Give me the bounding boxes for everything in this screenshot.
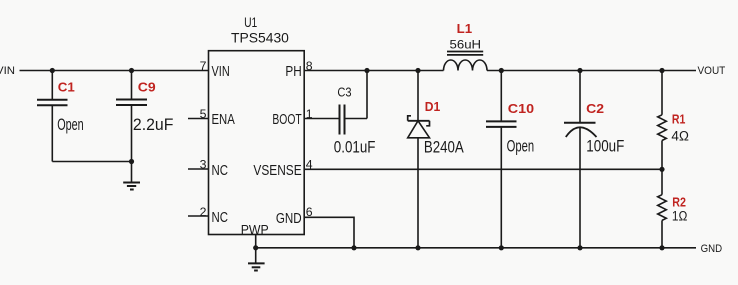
- inductor L1: [444, 21, 488, 71]
- resistor R1: [658, 71, 690, 170]
- junction R2 gnd: [659, 245, 664, 250]
- pin 3 NC stub: [188, 168, 209, 170]
- svg-text:TPS5430: TPS5430: [231, 30, 289, 45]
- IC U1 TPS5430: [188, 15, 313, 238]
- junction C10 branch: [499, 68, 504, 73]
- svg-text:D1: D1: [425, 99, 441, 114]
- svg-text:Open: Open: [57, 115, 83, 134]
- junction pin6 gnd: [351, 245, 356, 250]
- resistor R2: [658, 169, 688, 248]
- wire GND pin 6 route: [304, 217, 354, 248]
- svg-text:PWP: PWP: [241, 223, 269, 238]
- svg-text:100uF: 100uF: [586, 137, 624, 156]
- svg-text:VSENSE: VSENSE: [253, 163, 301, 179]
- svg-text:NC: NC: [212, 210, 229, 226]
- capacitor C2 (polarized): [564, 71, 624, 248]
- junction C2 gnd: [577, 245, 582, 250]
- svg-text:4Ω: 4Ω: [671, 129, 689, 144]
- svg-text:ENA: ENA: [212, 112, 235, 128]
- svg-text:2: 2: [200, 205, 207, 219]
- svg-text:U1: U1: [244, 15, 257, 30]
- svg-text:56uH: 56uH: [450, 39, 482, 51]
- junction R1 branch: [659, 68, 664, 73]
- junction C2 branch: [577, 68, 582, 73]
- wire C1 bottom to C9 bottom: [52, 161, 131, 163]
- junction C9 bottom: [129, 159, 134, 164]
- svg-text:VIN: VIN: [0, 65, 15, 77]
- svg-text:GND: GND: [276, 211, 302, 227]
- diode D1 (schottky): [408, 71, 465, 248]
- svg-text:NC: NC: [212, 163, 229, 179]
- svg-text:C2: C2: [586, 101, 604, 116]
- wire PWP to ground: [255, 235, 257, 248]
- ground below C9: [123, 162, 140, 190]
- pin 2 NC stub: [188, 215, 209, 217]
- capacitor C1: [37, 71, 84, 162]
- wire GND rail: [256, 247, 696, 249]
- svg-text:C10: C10: [508, 101, 534, 116]
- svg-text:R2: R2: [672, 195, 686, 210]
- capacitor C10: [486, 71, 534, 248]
- junction D1 gnd: [415, 245, 420, 250]
- svg-text:7: 7: [200, 59, 207, 73]
- pin 5 ENA stub: [188, 118, 209, 120]
- svg-text:PH: PH: [285, 64, 301, 80]
- wire PH rail left segment: [304, 70, 443, 72]
- svg-text:C3: C3: [337, 86, 351, 100]
- svg-text:R1: R1: [672, 112, 686, 127]
- svg-text:C9: C9: [138, 80, 156, 95]
- junction at C9: [129, 68, 134, 73]
- svg-text:5: 5: [200, 107, 207, 121]
- svg-text:1Ω: 1Ω: [672, 209, 688, 224]
- svg-text:2.2uF: 2.2uF: [133, 115, 174, 134]
- junction at C1: [50, 68, 55, 73]
- ground below PWP: [248, 248, 265, 271]
- junction C3 branch: [364, 68, 369, 73]
- svg-text:0.01uF: 0.01uF: [334, 138, 376, 157]
- junction C10 gnd: [499, 245, 504, 250]
- svg-text:B240A: B240A: [424, 138, 464, 157]
- svg-text:3: 3: [200, 157, 207, 171]
- svg-text:BOOT: BOOT: [272, 112, 301, 128]
- capacitor C9: [116, 71, 173, 162]
- wire VSENSE feedback: [304, 168, 662, 170]
- svg-text:C1: C1: [58, 80, 75, 95]
- junction VSENSE / R1-R2 node: [659, 167, 664, 172]
- wire VIN rail: [20, 70, 209, 72]
- junction PWP: [253, 245, 258, 250]
- wire PH rail right segment: [487, 70, 696, 72]
- svg-text:VIN: VIN: [212, 64, 230, 80]
- junction D1 branch: [415, 68, 420, 73]
- svg-text:L1: L1: [457, 21, 473, 36]
- svg-text:VOUT: VOUT: [698, 65, 726, 77]
- svg-text:GND: GND: [701, 243, 723, 255]
- svg-text:Open: Open: [507, 137, 534, 156]
- capacitor C3: [304, 71, 375, 157]
